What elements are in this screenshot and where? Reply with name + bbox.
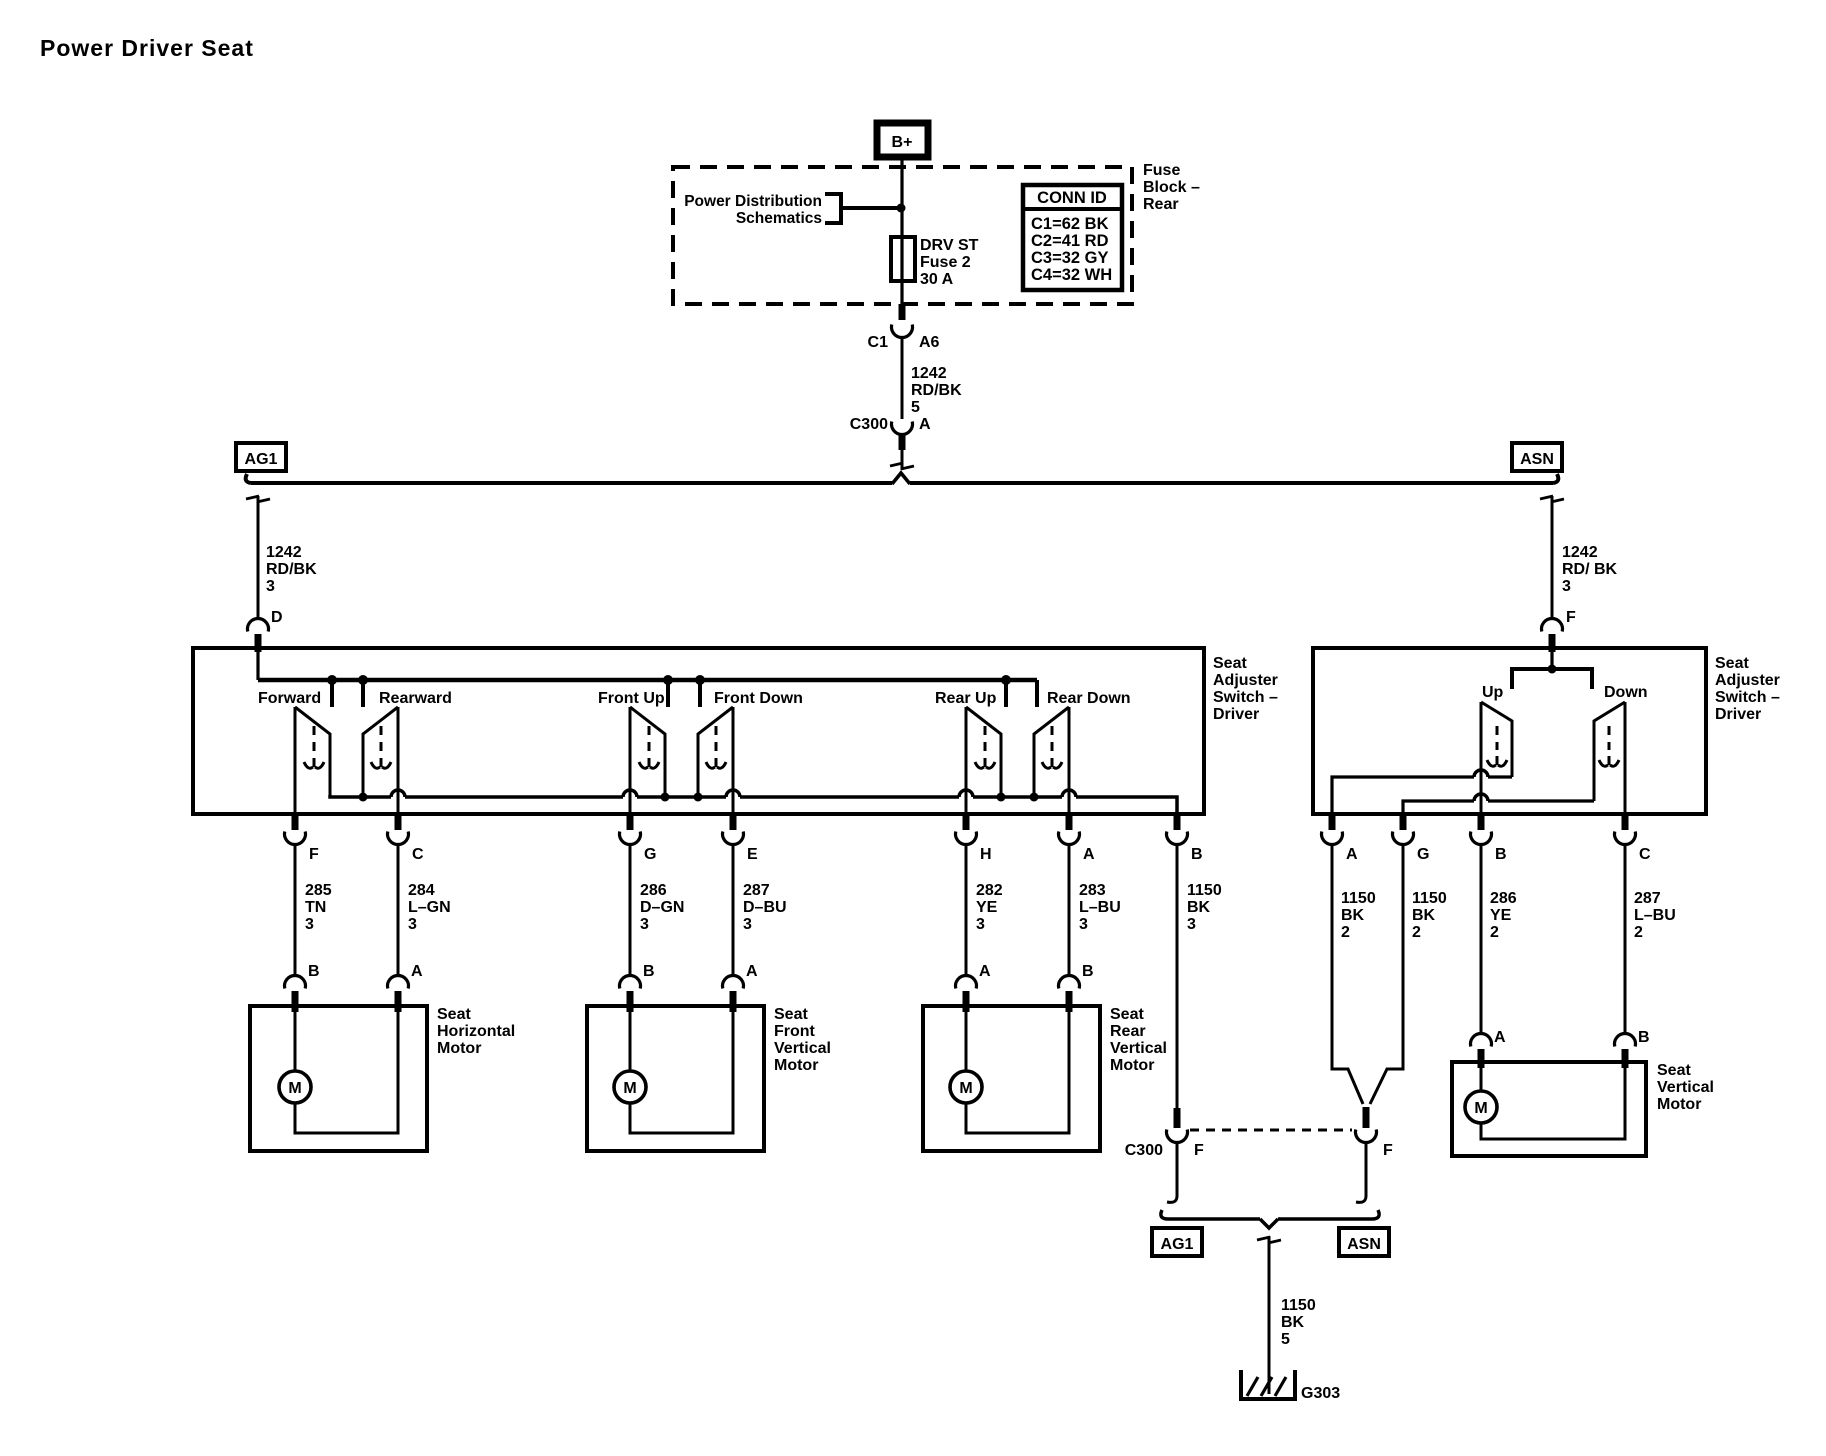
connector pin B (seat vertical motor) (1615, 1029, 1650, 1068)
svg-text:2: 2 (1490, 924, 1499, 941)
svg-text:BK: BK (1281, 1314, 1305, 1331)
svg-text:Down: Down (1604, 684, 1648, 701)
internal feed wire from D (256, 652, 259, 680)
svg-text:Motor: Motor (774, 1057, 818, 1074)
wire 1150 BK 2 (G) (1370, 845, 1403, 1104)
label 285 TN 3 (305, 882, 332, 933)
label 1150 BK 5 (1281, 1297, 1316, 1348)
connector C300 pin F (left half) (1125, 1108, 1204, 1159)
svg-text:Fuse: Fuse (1143, 162, 1180, 179)
break symbol left drop (246, 496, 270, 502)
node AG1 (bottom tag) (1152, 1228, 1202, 1256)
svg-text:A: A (746, 963, 758, 980)
wire C300 to splice bus (901, 448, 904, 470)
svg-text:A: A (979, 963, 991, 980)
connector pin G (switch out) (620, 814, 657, 863)
node ASN (top tag) (1512, 443, 1562, 471)
svg-text:M: M (1474, 1100, 1487, 1117)
internal B+ bus (258, 678, 1037, 683)
svg-text:A6: A6 (919, 334, 940, 351)
svg-text:Seat: Seat (1657, 1062, 1691, 1079)
label Seat Vertical Motor (1657, 1062, 1714, 1113)
connector pin B (motor in x630) (620, 963, 655, 1012)
switch common rail (330, 790, 1177, 814)
seat adjuster switch - driver (left) box (193, 648, 1204, 814)
wire 287 L-BU 2 (1624, 845, 1627, 1034)
wire 1242 RD/ BK 3 right (1551, 496, 1554, 618)
break symbol right drop (1540, 496, 1564, 502)
svg-text:C1: C1 (868, 334, 889, 351)
connector pin H (switch out) (956, 814, 992, 863)
svg-text:Block –: Block – (1143, 179, 1200, 196)
svg-text:3: 3 (1562, 578, 1571, 595)
svg-text:C300: C300 (850, 416, 888, 433)
svg-text:TN: TN (305, 899, 326, 916)
CONN ID table (1023, 185, 1122, 290)
label Power Distribution Schematics (684, 193, 822, 227)
connector pin F (switch out) (284, 814, 319, 863)
svg-text:F: F (1383, 1142, 1393, 1159)
svg-text:3: 3 (976, 916, 985, 933)
svg-text:Motor: Motor (1657, 1096, 1701, 1113)
label pin F (1566, 609, 1576, 626)
wire B+ to fuse (900, 160, 903, 237)
connector pin C (right switch out) (1615, 814, 1652, 863)
label Rear Up (935, 690, 997, 707)
break symbol at bus feed (890, 463, 914, 469)
rail junction x698 (694, 793, 703, 802)
svg-text:L–BU: L–BU (1634, 907, 1676, 924)
svg-text:Power Driver Seat: Power Driver Seat (40, 35, 254, 61)
svg-text:D–GN: D–GN (640, 899, 684, 916)
connector pin B (motor in x295) (284, 963, 319, 1012)
rail junction x363 (359, 793, 368, 802)
wire to ground splice (left) (1167, 1143, 1177, 1202)
label Fuse Block - Rear (1143, 162, 1200, 213)
label 283 L–BU 3 (1079, 882, 1121, 933)
connector pin E (switch out) (722, 814, 758, 863)
svg-text:F: F (1566, 609, 1576, 626)
label 1150 BK 3 (1187, 882, 1222, 933)
svg-text:Seat: Seat (1110, 1006, 1144, 1023)
svg-text:M: M (959, 1080, 972, 1097)
svg-text:Motor: Motor (437, 1040, 481, 1057)
svg-text:Driver: Driver (1715, 706, 1761, 723)
svg-text:C2=41 RD: C2=41 RD (1031, 232, 1109, 250)
svg-text:Rear Down: Rear Down (1047, 690, 1131, 707)
svg-text:L–BU: L–BU (1079, 899, 1121, 916)
wire 285 TN (294, 845, 297, 977)
svg-text:282: 282 (976, 882, 1003, 899)
contact stub x363 (358, 675, 368, 707)
svg-text:ASN: ASN (1347, 1236, 1381, 1253)
svg-text:5: 5 (911, 399, 920, 416)
label 1150 BK 2 (G) (1412, 890, 1447, 941)
svg-text:YE: YE (1490, 907, 1512, 924)
label 284 L–GN 3 (408, 882, 451, 933)
internal feed from F (1550, 652, 1553, 669)
svg-text:Schematics: Schematics (736, 210, 822, 227)
motor M2 seat front vertical (587, 1006, 764, 1151)
wire 1150 BK 3 (1176, 845, 1179, 1108)
label Seat Rear Vertical Motor (1110, 1006, 1167, 1074)
svg-text:F: F (1194, 1142, 1204, 1159)
wire 287 D–BU (732, 845, 735, 977)
label 286 D–GN 3 (640, 882, 684, 933)
svg-text:Seat: Seat (774, 1006, 808, 1023)
fuse block dashed box (Fuse Block - Rear) (673, 167, 1132, 304)
svg-text:C1=62 BK: C1=62 BK (1031, 215, 1109, 233)
svg-text:1150: 1150 (1412, 890, 1447, 907)
contact stub x668 (663, 675, 673, 707)
label 287 L-BU 2 (1634, 890, 1676, 941)
junction dot at B+ tap (897, 204, 906, 213)
motor M3 seat rear vertical (923, 1006, 1100, 1151)
power feed B+ symbol (877, 123, 928, 157)
svg-text:H: H (980, 846, 992, 863)
label 1242 RD/ BK 3 right (1562, 544, 1618, 595)
connector pin A (motor in x966) (956, 963, 992, 1012)
svg-text:3: 3 (1079, 916, 1088, 933)
svg-text:A: A (919, 416, 931, 433)
contact stub x1006 (1001, 675, 1011, 707)
motor M1 seat horizontal (250, 1006, 427, 1151)
svg-text:E: E (747, 846, 758, 863)
svg-text:A: A (411, 963, 423, 980)
switch Rearward (363, 707, 398, 814)
ground G303 (1241, 1370, 1295, 1399)
svg-text:F: F (309, 846, 319, 863)
svg-text:284: 284 (408, 882, 435, 899)
switch Up (1481, 702, 1512, 814)
label G303 (1301, 1385, 1340, 1402)
svg-text:A: A (1083, 846, 1095, 863)
label seat adjuster switch driver (right) (1715, 655, 1780, 723)
wire 282 YE (965, 845, 968, 977)
svg-text:Front Down: Front Down (714, 690, 803, 707)
svg-text:M: M (623, 1080, 636, 1097)
node AG1 (top tag) (236, 443, 286, 471)
connector pin A (seat vertical motor) (1471, 1029, 1507, 1068)
svg-text:1150: 1150 (1187, 882, 1222, 899)
svg-text:3: 3 (743, 916, 752, 933)
connector pin A (motor in x733) (722, 963, 758, 1012)
wire 284 L–GN (397, 845, 400, 977)
svg-text:Driver: Driver (1213, 706, 1259, 723)
svg-text:Switch –: Switch – (1213, 689, 1278, 706)
svg-text:2: 2 (1634, 924, 1643, 941)
svg-text:Up: Up (1482, 684, 1504, 701)
svg-text:G: G (644, 846, 656, 863)
feed bar with stubs (1512, 669, 1592, 689)
svg-text:Fuse 2: Fuse 2 (920, 254, 971, 271)
svg-text:5: 5 (1281, 1331, 1290, 1348)
svg-text:Rear: Rear (1110, 1023, 1146, 1040)
wire 286 YE 2 (1480, 845, 1483, 1034)
label Forward (258, 690, 321, 707)
splice underbrace AG1-ASN (1161, 1210, 1379, 1228)
svg-text:B: B (643, 963, 655, 980)
svg-text:Vertical: Vertical (1110, 1040, 1167, 1057)
node ASN (bottom tag) (1339, 1228, 1389, 1256)
svg-text:286: 286 (1490, 890, 1517, 907)
svg-text:3: 3 (305, 916, 314, 933)
svg-text:Motor: Motor (1110, 1057, 1154, 1074)
label Front Down (714, 690, 803, 707)
svg-text:A: A (1346, 846, 1358, 863)
svg-text:2: 2 (1341, 924, 1350, 941)
svg-text:286: 286 (640, 882, 667, 899)
wire 1150 BK 2 (A) (1332, 845, 1363, 1104)
svg-text:RD/BK: RD/BK (911, 382, 962, 399)
switch Down (1594, 702, 1625, 814)
label Front Up (598, 690, 665, 707)
svg-text:A: A (1494, 1029, 1506, 1046)
splice bus AG1-ASN (overbrace) (246, 473, 1559, 484)
svg-text:3: 3 (408, 916, 417, 933)
label 282 YE 3 (976, 882, 1003, 933)
contact stub x1037 (bus end) (1035, 680, 1039, 707)
svg-text:1242: 1242 (911, 365, 947, 382)
svg-text:Switch –: Switch – (1715, 689, 1780, 706)
connector C300 pin A (top) (850, 416, 931, 450)
svg-text:Vertical: Vertical (774, 1040, 831, 1057)
label seat adjuster switch driver (left) (1213, 655, 1278, 723)
svg-text:Adjuster: Adjuster (1213, 672, 1278, 689)
svg-text:L–GN: L–GN (408, 899, 451, 916)
svg-text:1242: 1242 (1562, 544, 1598, 561)
connector pin A (right switch out) (1322, 814, 1359, 863)
switch Rear Up (966, 707, 1001, 814)
svg-text:3: 3 (266, 578, 275, 595)
svg-text:Rearward: Rearward (379, 690, 452, 707)
wire 1242 RD/BK 5 (901, 337, 904, 419)
svg-text:C300: C300 (1125, 1142, 1163, 1159)
connector pin A (switch out) (1059, 814, 1096, 863)
connector pin B (right switch out) (1471, 814, 1507, 863)
svg-text:Power Distribution: Power Distribution (684, 193, 822, 210)
connector pin G (right switch out) (1393, 814, 1430, 863)
label Rear Down (1047, 690, 1131, 707)
svg-text:Rear: Rear (1143, 196, 1179, 213)
switch Front Down (698, 707, 733, 814)
title (40, 35, 254, 61)
svg-text:B: B (308, 963, 320, 980)
connector C300 pin F (right half) (1356, 1107, 1394, 1159)
label 286 YE 2 (1490, 890, 1517, 941)
svg-text:3: 3 (1187, 916, 1196, 933)
svg-text:DRV ST: DRV ST (920, 237, 979, 254)
switch Front Up (630, 707, 665, 814)
break symbol at ground feed (1257, 1237, 1281, 1243)
svg-text:287: 287 (1634, 890, 1661, 907)
svg-text:Horizontal: Horizontal (437, 1023, 515, 1040)
switch Forward (295, 707, 330, 814)
label 1150 BK 2 (A) (1341, 890, 1376, 941)
svg-text:M: M (288, 1080, 301, 1097)
svg-text:CONN ID: CONN ID (1037, 189, 1107, 207)
svg-text:C: C (1639, 846, 1651, 863)
svg-text:G303: G303 (1301, 1385, 1340, 1402)
wire Down-return to G (1403, 794, 1594, 814)
svg-text:B: B (1191, 846, 1203, 863)
fuse F2 DRV ST 30A (891, 237, 915, 281)
svg-text:YE: YE (976, 899, 998, 916)
svg-text:C4=32 WH: C4=32 WH (1031, 266, 1112, 284)
motor M4 seat vertical (1452, 1062, 1646, 1156)
svg-text:RD/ BK: RD/ BK (1562, 561, 1618, 578)
rail junction x1001 (997, 793, 1006, 802)
seat adjuster switch - driver (right) box (1313, 648, 1706, 814)
wire 283 L–BU (1068, 845, 1071, 977)
svg-text:Forward: Forward (258, 690, 321, 707)
label Up (1482, 684, 1504, 701)
svg-text:B: B (1638, 1029, 1650, 1046)
wire 1150 BK 5 (1268, 1236, 1271, 1394)
switch Rear Down (1034, 707, 1069, 814)
feed junction dot (1548, 665, 1557, 674)
connector C300 dashed link (1190, 1129, 1352, 1132)
svg-text:Rear Up: Rear Up (935, 690, 997, 707)
svg-text:AG1: AG1 (1161, 1236, 1194, 1253)
svg-text:Seat: Seat (437, 1006, 471, 1023)
svg-text:Adjuster: Adjuster (1715, 672, 1780, 689)
svg-text:B: B (1495, 846, 1507, 863)
svg-text:Vertical: Vertical (1657, 1079, 1714, 1096)
connector pin A (motor in x398) (387, 963, 423, 1012)
svg-text:ASN: ASN (1520, 451, 1554, 468)
wire 286 D–GN (629, 845, 632, 977)
svg-text:285: 285 (305, 882, 332, 899)
svg-text:Seat: Seat (1715, 655, 1749, 672)
svg-text:D: D (271, 609, 283, 626)
label DRV ST Fuse 2 30 A (920, 237, 979, 288)
svg-text:30 A: 30 A (920, 271, 954, 288)
wire fuse to connector C1 (900, 281, 903, 306)
svg-text:Front Up: Front Up (598, 690, 665, 707)
label 1242 RD/BK 5 (911, 365, 962, 416)
label Rearward (379, 690, 452, 707)
connector pin D into switch (248, 619, 269, 652)
wire Up-return to A (1332, 770, 1512, 814)
connector C1 pin A6 (868, 304, 940, 351)
label 287 D–BU 3 (743, 882, 787, 933)
svg-text:1150: 1150 (1281, 1297, 1316, 1314)
label Seat Front Vertical Motor (774, 1006, 831, 1074)
label pin D (271, 609, 283, 626)
svg-text:Seat: Seat (1213, 655, 1247, 672)
connector pin C (switch out) (387, 814, 424, 863)
svg-text:Front: Front (774, 1023, 816, 1040)
connector pin B (switch out) (1167, 814, 1203, 863)
svg-text:2: 2 (1412, 924, 1421, 941)
svg-text:287: 287 (743, 882, 770, 899)
wire to ground splice (right) (1356, 1143, 1366, 1202)
svg-text:B: B (1082, 963, 1094, 980)
label 1242 RD/BK 3 left (266, 544, 317, 595)
svg-text:BK: BK (1412, 907, 1436, 924)
svg-text:D–BU: D–BU (743, 899, 787, 916)
label Down (1604, 684, 1648, 701)
svg-text:C3=32 GY: C3=32 GY (1031, 249, 1109, 267)
rail junction x1034 (1030, 793, 1039, 802)
svg-text:RD/BK: RD/BK (266, 561, 317, 578)
svg-text:C: C (412, 846, 424, 863)
svg-text:BK: BK (1341, 907, 1365, 924)
svg-text:G: G (1417, 846, 1429, 863)
rail junction x665 (661, 793, 670, 802)
svg-text:BK: BK (1187, 899, 1211, 916)
bracket to power distribution schematics (825, 194, 898, 223)
connector pin F into switch (1541, 619, 1562, 652)
svg-text:AG1: AG1 (245, 451, 278, 468)
contact stub x332 (327, 675, 337, 707)
contact stub x700 (695, 675, 705, 707)
svg-text:1242: 1242 (266, 544, 302, 561)
label Seat Horizontal Motor (437, 1006, 515, 1057)
svg-text:3: 3 (640, 916, 649, 933)
connector pin B (motor in x1069) (1059, 963, 1094, 1012)
svg-text:283: 283 (1079, 882, 1106, 899)
svg-text:1150: 1150 (1341, 890, 1376, 907)
wire 1242 RD/BK 3 left (257, 496, 260, 618)
svg-text:B+: B+ (892, 134, 913, 151)
